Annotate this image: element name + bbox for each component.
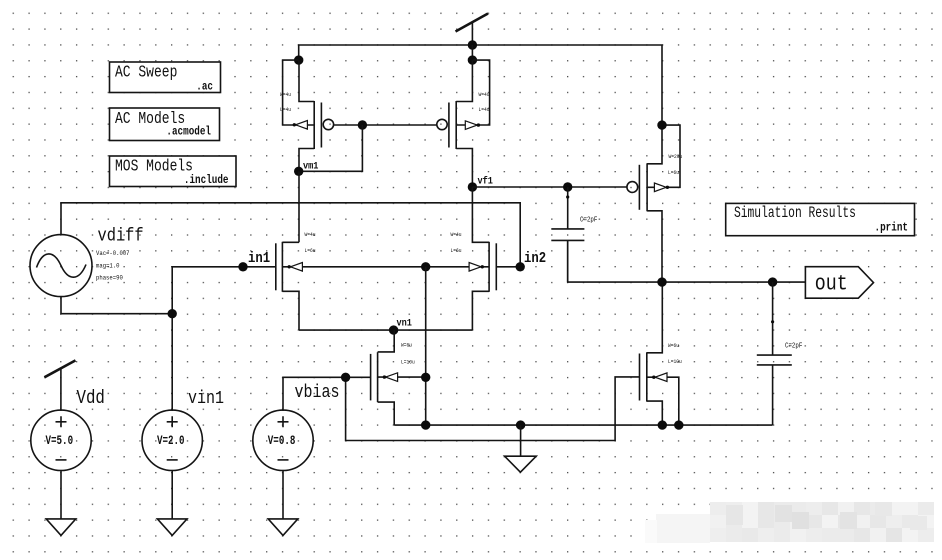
node vn1 bbox=[389, 317, 412, 335]
wire vdiff top to in2 gate bbox=[61, 203, 520, 267]
svg-text:mag=1.0: mag=1.0 bbox=[96, 262, 120, 270]
junction M6 bulk bbox=[674, 420, 683, 429]
svg-text:Vac=-0.007: Vac=-0.007 bbox=[96, 250, 130, 258]
svg-text:W=6u: W=6u bbox=[668, 343, 679, 350]
svg-text:L=6u: L=6u bbox=[305, 248, 316, 255]
ground under Vdd bbox=[46, 519, 76, 536]
svg-text:C=2pF: C=2pF bbox=[580, 216, 598, 224]
svg-text:L=10u: L=10u bbox=[668, 359, 682, 366]
wire out net bbox=[568, 240, 807, 282]
junction vdiff/vin1 bbox=[168, 309, 177, 318]
junction diff-pair bulk node bbox=[421, 262, 430, 271]
svg-text:L=4u: L=4u bbox=[479, 107, 490, 114]
svg-text:vdiff: vdiff bbox=[98, 226, 144, 247]
transistor M6 (NMOS output stage) bbox=[640, 282, 682, 425]
transistor M4 (PMOS mirror right) bbox=[437, 60, 490, 187]
svg-text:.include: .include bbox=[184, 174, 229, 187]
node vf1 bbox=[468, 175, 494, 192]
svg-text:W=6u: W=6u bbox=[401, 342, 412, 349]
svg-text:L=6u: L=6u bbox=[451, 248, 462, 255]
transistor M2 (NMOS diff pair right, in2) bbox=[426, 187, 497, 330]
svg-text:Simulation Results: Simulation Results bbox=[734, 206, 856, 223]
node in1 bbox=[238, 251, 270, 271]
wire vbias net bbox=[283, 377, 640, 441]
junction vdd rail / M4 stub bbox=[468, 40, 477, 60]
svg-text:.print: .print bbox=[875, 222, 908, 235]
transistor M5 (PMOS output stage) bbox=[627, 125, 682, 282]
annotation box AC Models (.acmodel) bbox=[110, 108, 220, 141]
svg-text:V=5.0: V=5.0 bbox=[45, 435, 73, 449]
annotation box MOS Models (.include) bbox=[110, 156, 237, 187]
annotation box Simulation Results (.print) bbox=[726, 203, 915, 235]
source vin1 V=2.0 bbox=[142, 389, 224, 519]
capacitor Cload 2pF bbox=[757, 282, 803, 425]
svg-text:L=6u: L=6u bbox=[668, 170, 679, 177]
wire gate-drain tie of M3 (node vm1) bbox=[299, 125, 363, 171]
svg-text:in1: in1 bbox=[248, 251, 270, 267]
capacitor Ccomp 2pF bbox=[551, 187, 597, 282]
svg-text:C=2pF: C=2pF bbox=[785, 342, 803, 350]
junction vbias gate node bbox=[341, 373, 350, 382]
wire mirror gates bbox=[333, 124, 437, 126]
transistor M1 (NMOS diff pair left, in1) bbox=[276, 232, 426, 330]
vdd supply terminal (slash) bbox=[456, 14, 489, 46]
pin out (tag) bbox=[805, 267, 873, 299]
wire diff pair common source rail bbox=[299, 329, 472, 331]
junction out / load cap bbox=[768, 277, 777, 286]
junction mirror gate node bbox=[358, 120, 367, 129]
svg-text:L=10u: L=10u bbox=[401, 359, 415, 366]
svg-text:V=0.8: V=0.8 bbox=[268, 435, 296, 449]
wire vm1 to M1 drain bbox=[298, 171, 300, 242]
wire source rail (tail + M6 source + caps) bbox=[394, 424, 772, 426]
svg-text:.ac: .ac bbox=[196, 81, 213, 94]
ground under vbias bbox=[268, 519, 298, 536]
svg-text:vn1: vn1 bbox=[397, 317, 413, 329]
svg-text:vf1: vf1 bbox=[478, 175, 494, 187]
svg-text:W=4u: W=4u bbox=[280, 92, 291, 99]
svg-text:W=4u: W=4u bbox=[451, 232, 462, 239]
svg-text:vin1: vin1 bbox=[188, 389, 224, 410]
svg-text:vbias: vbias bbox=[295, 383, 340, 404]
transistor M0 (NMOS tail current source) bbox=[371, 330, 426, 425]
svg-text:MOS Models: MOS Models bbox=[115, 158, 193, 176]
wire vdiff bottom to vin1/in1 bbox=[61, 267, 276, 411]
svg-text:L=4u: L=4u bbox=[280, 107, 291, 114]
svg-text:.acmodel: .acmodel bbox=[166, 126, 211, 139]
source vbias V=0.8 bbox=[253, 383, 340, 519]
svg-text:W=4u: W=4u bbox=[305, 232, 316, 239]
node in2 bbox=[516, 251, 547, 271]
node vm1 bbox=[294, 160, 319, 176]
wire vdd rail bbox=[299, 45, 662, 125]
ground (mid circuit) bbox=[505, 425, 537, 472]
source vdiff (AC source) bbox=[30, 226, 144, 297]
wire vf1 to M5 gate bbox=[472, 186, 627, 188]
junction M0 bulk node bbox=[421, 373, 430, 382]
wire bulk node down to source rail bbox=[425, 267, 427, 425]
svg-text:W=20u: W=20u bbox=[669, 154, 683, 161]
node M3 source dot bbox=[294, 55, 303, 64]
svg-text:AC Sweep: AC Sweep bbox=[115, 64, 177, 82]
svg-text:phase=90: phase=90 bbox=[96, 274, 123, 282]
junction bulk/source rail bbox=[421, 420, 430, 429]
svg-text:vm1: vm1 bbox=[303, 160, 319, 172]
svg-text:Vdd: Vdd bbox=[77, 388, 105, 410]
svg-text:in2: in2 bbox=[524, 251, 546, 267]
junction vf1 / comp cap bbox=[563, 182, 572, 191]
svg-text:V=2.0: V=2.0 bbox=[157, 435, 185, 449]
transistor M3 (PMOS mirror left) bbox=[280, 60, 334, 171]
ground under vin1 bbox=[157, 519, 187, 536]
junction ground stub bbox=[516, 420, 525, 429]
svg-text:W=4u: W=4u bbox=[479, 92, 490, 99]
svg-text:out: out bbox=[815, 272, 848, 297]
annotation box AC Sweep (.ac) bbox=[110, 62, 221, 94]
node M4 source dot bbox=[468, 55, 477, 64]
source Vdd V=5.0 bbox=[31, 360, 105, 519]
node M5 source dot bbox=[657, 120, 666, 129]
junction out / drains bbox=[657, 277, 666, 286]
junction M6 source bbox=[658, 420, 667, 429]
